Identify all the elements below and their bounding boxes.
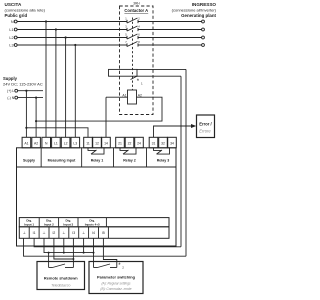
parameter switching switch box — [89, 262, 143, 294]
junction dot supply L tap — [25, 90, 27, 92]
wire drop L1 to terminal — [55, 30, 57, 138]
supply terminal labels (+)L (-)N — [7, 89, 15, 100]
svg-text:3RH: 3RH — [133, 2, 140, 6]
svg-text:(connessione all'inverter): (connessione all'inverter) — [172, 8, 217, 13]
terminal circle supply L — [15, 89, 18, 92]
contactor A main contact pole 5-6 (L2) — [127, 34, 138, 39]
wire bus L3 — [17, 44, 127, 46]
svg-text:(A): Regular settings: (A): Regular settings — [101, 282, 130, 286]
wire supply N — [18, 97, 43, 99]
svg-text:Supply: Supply — [23, 159, 35, 163]
wire supply L to A1 — [25, 91, 27, 138]
wire aux to right vertical inner — [180, 76, 182, 247]
svg-text:Public grid: Public grid — [5, 13, 28, 18]
dig input label band — [19, 218, 169, 227]
section labels — [23, 159, 169, 163]
svg-text:I3: I3 — [72, 231, 75, 235]
svg-text:INGRESSO: INGRESSO — [192, 2, 217, 7]
svg-text:Input 2: Input 2 — [44, 222, 54, 226]
svg-text:I1: I1 — [33, 231, 36, 235]
svg-text:⊥: ⊥ — [82, 231, 85, 235]
terminal labels top — [24, 141, 174, 145]
relay 2 contact symbol — [120, 148, 136, 154]
arrow into error box — [191, 124, 196, 128]
svg-text:Contactor A: Contactor A — [124, 8, 148, 13]
svg-text:L3: L3 — [9, 44, 13, 48]
svg-text:Input 1: Input 1 — [24, 222, 34, 226]
svg-text:Relay 1: Relay 1 — [91, 159, 104, 163]
svg-text:Errore: Errore — [199, 128, 211, 133]
svg-text:32: 32 — [161, 141, 165, 145]
header text INGRESSO generating plant — [172, 2, 217, 18]
wire dig3 ground join rail — [63, 238, 65, 252]
wire bus L2 — [17, 37, 127, 39]
svg-text:(+) L: (+) L — [7, 89, 14, 93]
junction dot L1 bus tap — [55, 28, 57, 30]
junction dot A2 to coil return — [35, 120, 37, 122]
svg-text:I2: I2 — [52, 231, 55, 235]
wire junction dot gnd-I4 — [93, 252, 95, 254]
wire junction dot gnd3 — [63, 252, 65, 254]
svg-text:A1: A1 — [122, 93, 126, 97]
svg-text:Relay 3: Relay 3 — [157, 159, 170, 163]
svg-text:34: 34 — [170, 141, 174, 145]
svg-text:L3: L3 — [73, 141, 77, 145]
dig input labels — [24, 219, 100, 227]
contactor A auxiliary feedback contact — [109, 69, 187, 79]
wire stub remote box left — [48, 253, 50, 268]
contactor A main contact pole 7-8 (L3) — [127, 42, 138, 47]
svg-text:⊥: ⊥ — [23, 231, 26, 235]
wire dig2 I2 join I3 — [54, 238, 74, 259]
junction dot supply N tap — [35, 97, 37, 99]
svg-text:L1: L1 — [9, 28, 13, 32]
wire N to coil A2 — [36, 97, 162, 121]
svg-text:24: 24 — [137, 141, 141, 145]
svg-text:Parameter switching: Parameter switching — [97, 275, 136, 280]
contactor A main contact pole 3-4 (L1) — [127, 26, 138, 31]
terminal circles left buses — [14, 20, 17, 46]
svg-text:(-) N: (-) N — [7, 96, 14, 100]
svg-text:21: 21 — [118, 141, 122, 145]
svg-text:11: 11 — [86, 141, 90, 145]
wire drop N to terminal — [45, 22, 47, 138]
svg-text:A2: A2 — [34, 141, 38, 145]
svg-text:22: 22 — [128, 141, 132, 145]
wire error line from terminal 31 — [154, 126, 192, 137]
wire bus L1 — [17, 29, 127, 31]
error indicator box — [197, 115, 215, 138]
svg-text:A2: A2 — [138, 93, 142, 97]
wire ground1 rail to aux contact — [24, 238, 187, 256]
svg-text:Remote shutdown: Remote shutdown — [44, 276, 78, 281]
terminal circles right buses — [202, 20, 205, 46]
dig terminal row — [19, 227, 169, 239]
parameter switching labels — [97, 275, 136, 292]
contactor A dashed boundary box — [120, 6, 154, 115]
remote shutdown labels — [44, 276, 78, 288]
contact terminal digits — [125, 16, 140, 44]
wire bus N — [17, 21, 127, 23]
wire junction dot I2-I3 — [72, 258, 74, 260]
wire dig4 ground join rail — [83, 238, 85, 252]
wire aux to right vertical outer — [185, 69, 187, 256]
svg-text:12: 12 — [95, 141, 99, 145]
svg-text:(connessione alla rete): (connessione alla rete) — [5, 7, 46, 12]
svg-text:24V DC; 115-230V AC: 24V DC; 115-230V AC — [3, 81, 43, 86]
terminal circle supply N — [15, 96, 18, 99]
junction dot L2 bus tap — [65, 36, 67, 38]
wire junction dot gnd4 — [83, 252, 85, 254]
svg-text:I4: I4 — [92, 231, 95, 235]
svg-text:14: 14 — [104, 141, 108, 145]
svg-text:⊥: ⊥ — [62, 231, 65, 235]
remote shutdown switch box — [37, 262, 85, 290]
dig terminal labels — [23, 231, 105, 235]
svg-text:Teledistacco: Teledistacco — [51, 284, 70, 288]
junction dot N bus tap — [45, 20, 47, 22]
footnote asterisk 2 — [118, 263, 124, 270]
wire supply N to A2 — [35, 98, 37, 138]
wire supply L — [18, 90, 43, 92]
junction dot A1 to relay1 common — [25, 127, 27, 129]
contactor A main contact pole 1-2 (N) — [127, 18, 138, 23]
wire drop L2 to terminal — [65, 38, 67, 138]
wire drop L3 to terminal — [74, 45, 76, 137]
relay 1 contact symbol — [88, 148, 104, 154]
mechanical linkage dashed — [132, 18, 134, 91]
header text USCITA public grid — [5, 2, 46, 18]
footnote asterisk 1 — [137, 79, 143, 86]
svg-text:L2: L2 — [64, 141, 68, 145]
svg-text:I5: I5 — [102, 231, 105, 235]
svg-text:Error /: Error / — [199, 122, 212, 127]
wire dig3 I3 drop to remote box — [72, 238, 74, 267]
svg-text:USCITA: USCITA — [5, 2, 22, 7]
svg-text:Measuring input: Measuring input — [48, 159, 77, 163]
junction dot L3 bus tap — [74, 44, 76, 46]
device terminal row A1-34 — [22, 137, 176, 148]
svg-text:⊥: ⊥ — [43, 231, 46, 235]
svg-text:Inputs 4+5: Inputs 4+5 — [85, 222, 100, 226]
section separators — [17, 148, 177, 167]
wire L to terminal 11 — [26, 128, 88, 138]
svg-text:Supply: Supply — [3, 76, 18, 81]
svg-text:Input 3: Input 3 — [63, 222, 73, 226]
supply header text — [3, 76, 43, 86]
wire ground2 rail — [44, 238, 94, 252]
svg-text:L1: L1 — [54, 141, 58, 145]
svg-text:L2: L2 — [9, 36, 13, 40]
wire dig4 I4 drop to param box — [93, 238, 95, 267]
contactor A coil A1-A2 — [106, 90, 137, 137]
svg-text:Generating plant: Generating plant — [181, 13, 216, 18]
wire I1 rail to aux contact — [34, 238, 181, 247]
svg-text:A1: A1 — [24, 141, 28, 145]
wire junction dot box1-gnd — [48, 252, 50, 254]
bus labels N L1 L2 L3 — [9, 20, 13, 48]
wire dig4 I5 to param box — [103, 238, 116, 267]
svg-text:(B): Commutaz. mode: (B): Commutaz. mode — [100, 287, 131, 291]
relay 3 contact symbol — [154, 148, 170, 154]
svg-text:N: N — [11, 20, 14, 24]
svg-text:31: 31 — [152, 141, 156, 145]
monitoring relay U1 body — [17, 148, 177, 246]
svg-text:Relay 2: Relay 2 — [123, 159, 136, 163]
